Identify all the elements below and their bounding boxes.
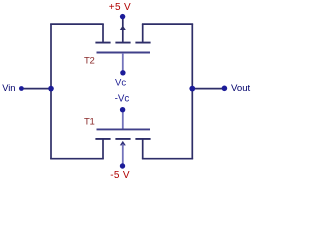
- transistor T2 gate lead down to Vc node: [122, 53, 124, 72]
- node -Vc dot: [120, 107, 125, 112]
- svg-text:Vin: Vin: [2, 83, 15, 93]
- node Vin terminal dot: [19, 86, 24, 91]
- node -5V supply dot: [120, 163, 125, 168]
- wire: bottom-right horizontal (T1 right contact to right rail): [142, 158, 193, 160]
- wire: T1 left contact stub: [102, 140, 104, 159]
- transistor T2 body lead (from +5V node): [122, 19, 124, 42]
- transistor T1 gate lead from -Vc node: [122, 110, 124, 129]
- svg-text:Vc: Vc: [115, 78, 126, 89]
- node Vout junction dot: [189, 86, 195, 92]
- transistor T2 substrate arrow (pointing up): [120, 26, 126, 30]
- wire: T2 right contact stub: [142, 24, 144, 42]
- svg-text:T2: T2: [84, 55, 95, 66]
- node Vin junction dot: [48, 86, 54, 92]
- wire: T2 left contact stub: [102, 24, 104, 42]
- transistor T1 gate plate: [97, 128, 151, 130]
- svg-text:T1: T1: [84, 117, 95, 128]
- wire: T1 right contact stub: [142, 140, 144, 159]
- node Vc dot: [120, 70, 125, 75]
- wire: Vout output lead: [192, 88, 224, 90]
- transistor T2 channel bars (source / substrate / drain contacts): [95, 42, 150, 44]
- wire: top-right horizontal (T2 right contact to right rail): [142, 23, 193, 25]
- transistor T1 body lead down to -5V node: [122, 144, 124, 166]
- transistor T1 substrate arrow (pointing up): [120, 141, 126, 146]
- transistor T2 gate plate: [97, 52, 151, 54]
- node +5V supply dot: [120, 14, 125, 19]
- svg-text:+5 V: +5 V: [109, 2, 131, 13]
- wire: left rail from top-left corner to bottom-left corner: [50, 24, 52, 160]
- wire: right rail from top-right corner to bottom-right corner: [191, 24, 193, 160]
- node Vout terminal dot: [222, 86, 228, 92]
- svg-text:-5 V: -5 V: [110, 170, 130, 181]
- svg-text:-Vc: -Vc: [115, 94, 130, 105]
- svg-text:Vout: Vout: [231, 83, 251, 94]
- transistor T1 channel bars (source / substrate / drain contacts): [95, 138, 150, 140]
- wire: bottom-left horizontal (left rail to T1 left contact): [50, 158, 104, 160]
- wire: top-left horizontal (left rail to T2 left contact): [50, 23, 104, 25]
- wire: Vin input lead: [21, 88, 51, 90]
